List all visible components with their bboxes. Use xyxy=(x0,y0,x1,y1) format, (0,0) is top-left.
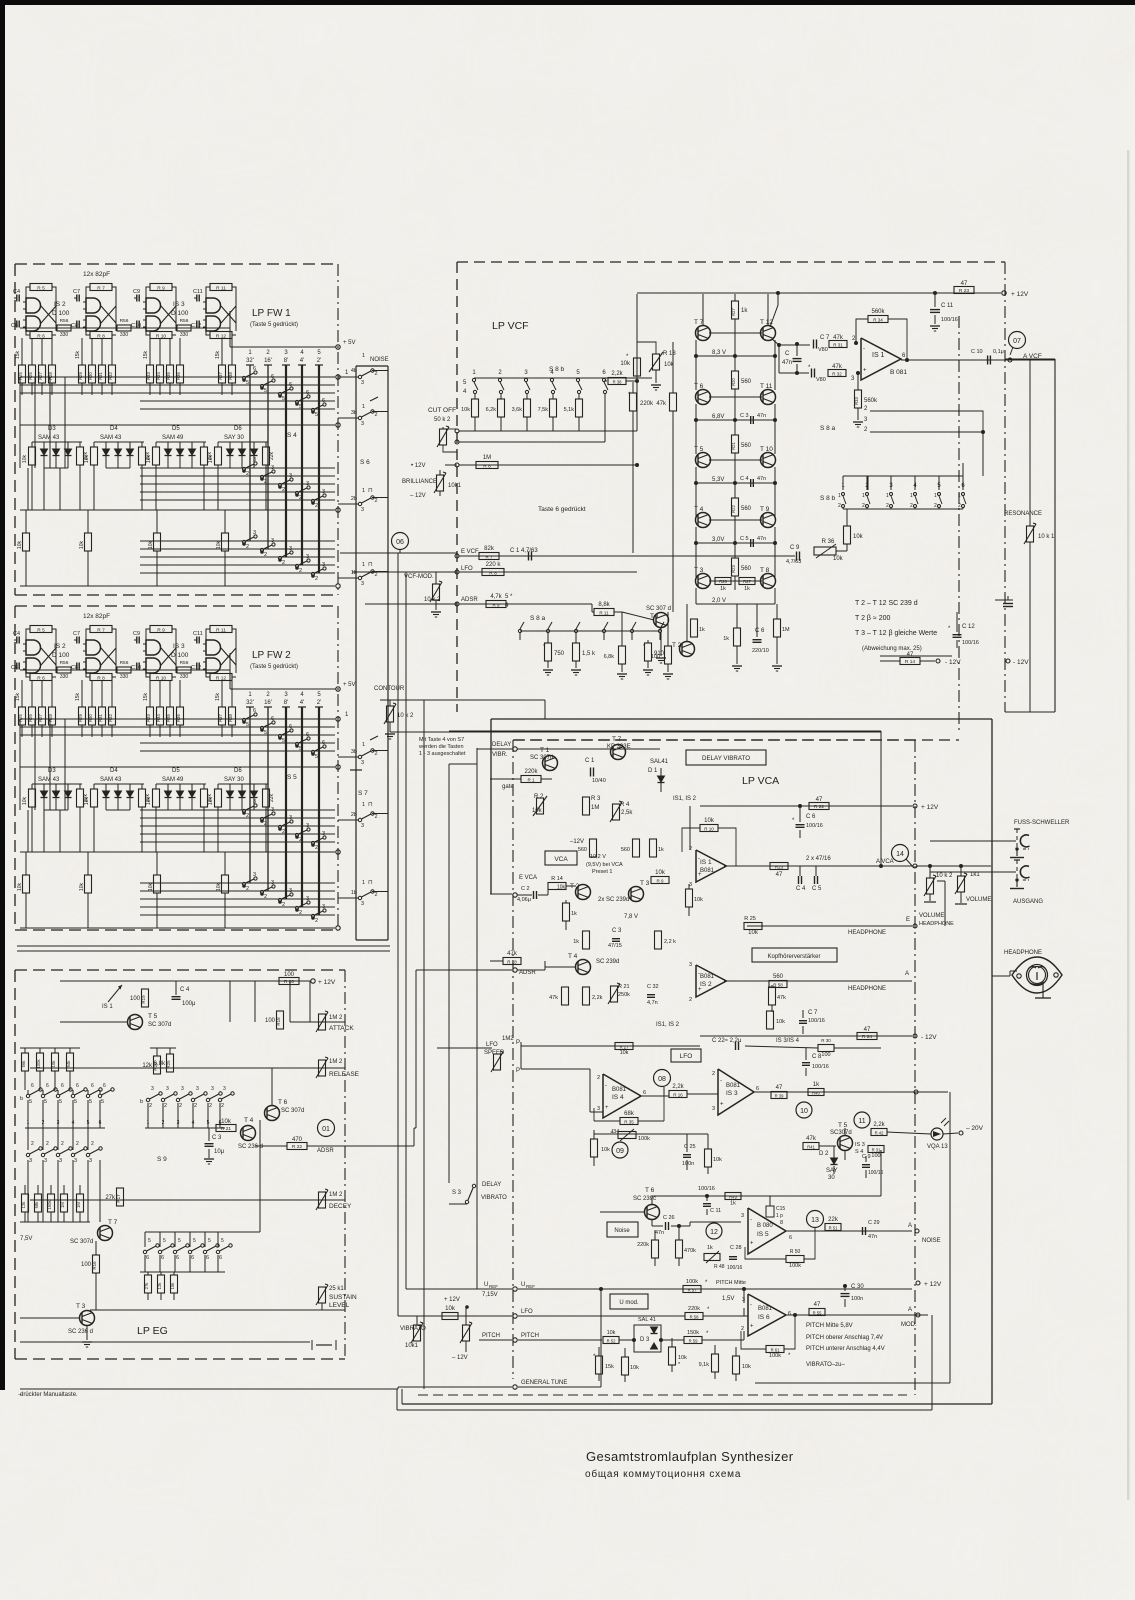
svg-text:D 100: D 100 xyxy=(52,652,70,659)
svg-text:R26: R26 xyxy=(719,579,727,584)
svg-text:6: 6 xyxy=(289,382,292,388)
transistor T1 SC307d xyxy=(654,613,669,628)
wire bus column 3 xyxy=(282,364,290,366)
wire volume wiper to E line xyxy=(937,880,945,882)
svg-text:6: 6 xyxy=(61,1083,64,1089)
wire diode group risers D4 xyxy=(93,442,95,447)
svg-text:0,1μ: 0,1μ xyxy=(993,349,1004,355)
switch S8a-2 xyxy=(546,629,549,632)
dashed top border VCA xyxy=(513,739,915,741)
resistor below switch 2 xyxy=(498,399,505,417)
svg-text:560: 560 xyxy=(741,506,752,512)
resistor 10k below op xyxy=(686,889,693,907)
resistor R10 10k feedback xyxy=(700,825,718,832)
svg-text:S 3: S 3 xyxy=(452,1190,462,1196)
svg-text:IS1, IS 2: IS1, IS 2 xyxy=(673,796,697,802)
svg-text:10k: 10k xyxy=(678,1355,687,1361)
wire output A VCA xyxy=(724,865,912,867)
svg-text:3: 3 xyxy=(361,901,364,907)
svg-text:+ 5V: + 5V xyxy=(343,682,356,688)
svg-text:IS 1: IS 1 xyxy=(102,1004,113,1010)
wire bus collector middle xyxy=(20,851,335,853)
svg-text:3: 3 xyxy=(306,554,309,560)
svg-text:16': 16' xyxy=(264,358,272,364)
svg-text:560k: 560k xyxy=(871,309,885,315)
svg-text:R 6: R 6 xyxy=(37,333,45,339)
switch S8a-1 xyxy=(518,629,521,632)
resistor 47k below IS2 xyxy=(769,987,776,1005)
svg-text:- 12V: - 12V xyxy=(945,659,961,666)
svg-text:HEADPHONE: HEADPHONE xyxy=(848,986,886,992)
svg-text:R34: R34 xyxy=(156,713,161,721)
svg-text:1M: 1M xyxy=(60,1202,65,1208)
svg-text:3b: 3b xyxy=(351,410,357,416)
svg-text:47k: 47k xyxy=(832,364,843,370)
resistor R50 100k xyxy=(786,1256,804,1263)
svg-text:T 6: T 6 xyxy=(645,1187,655,1194)
ground far right xyxy=(995,599,1013,601)
resistor R26 1k xyxy=(715,578,731,585)
switch S8a-6 xyxy=(658,629,661,632)
svg-text:47: 47 xyxy=(814,1302,821,1308)
svg-text:LFO: LFO xyxy=(680,1053,693,1060)
svg-text:330: 330 xyxy=(120,674,129,680)
svg-text:1k1: 1k1 xyxy=(970,872,980,878)
svg-text:T 5: T 5 xyxy=(694,446,704,453)
svg-text:10,2 V: 10,2 V xyxy=(590,854,606,860)
svg-text:14: 14 xyxy=(896,851,904,858)
svg-text:3: 3 xyxy=(322,831,325,837)
svg-text:SC 236 d: SC 236 d xyxy=(238,1144,263,1150)
svg-text:SC 307 d: SC 307 d xyxy=(646,606,671,612)
svg-text:1k: 1k xyxy=(741,308,748,314)
svg-text:R16: R16 xyxy=(92,1261,97,1270)
resistor 1k c xyxy=(650,839,657,857)
svg-text:R56: R56 xyxy=(60,660,69,666)
svg-text:C 7: C 7 xyxy=(808,1010,818,1016)
svg-text:R 9: R 9 xyxy=(656,879,664,884)
svg-text:6: 6 xyxy=(306,732,309,738)
svg-text:47n: 47n xyxy=(757,536,766,542)
svg-text:R26: R26 xyxy=(28,713,33,721)
resistor 560 a xyxy=(590,839,597,857)
svg-text:R 1: R 1 xyxy=(527,778,535,783)
transistor T2 xyxy=(680,642,695,657)
svg-text:100/16: 100/16 xyxy=(941,317,958,323)
resistor R7 82k xyxy=(479,553,499,560)
LP VCA outer box left partial xyxy=(490,719,492,894)
svg-text:werden die Tasten: werden die Tasten xyxy=(418,744,464,750)
transistor T 12 xyxy=(761,326,776,341)
svg-text:- 12V: - 12V xyxy=(921,1034,937,1041)
wire bus collector upper xyxy=(20,766,335,768)
capacitor C7 V80 xyxy=(813,340,815,349)
wire output A VCF xyxy=(901,359,1055,361)
wire bus column 4 xyxy=(298,706,306,708)
potentiometer RESONANCE 10k1 xyxy=(1027,526,1034,542)
svg-text:R27: R27 xyxy=(731,307,736,315)
capacitor C8 V80 xyxy=(811,369,813,378)
wire vertical bundle to bottom xyxy=(397,553,399,1316)
node 12 circle xyxy=(706,1223,722,1239)
svg-text:25 k1: 25 k1 xyxy=(329,1286,344,1292)
switch staircase xyxy=(295,564,298,567)
wire diode group risers D6 xyxy=(217,442,219,447)
svg-text:4b: 4b xyxy=(351,368,357,374)
resistor R30 1M xyxy=(774,619,781,637)
svg-text:2: 2 xyxy=(179,1103,182,1109)
svg-text:SC 307d: SC 307d xyxy=(530,755,553,761)
svg-text:2: 2 xyxy=(838,503,841,509)
svg-text:2: 2 xyxy=(910,503,913,509)
DELAY VIBRATO box xyxy=(686,750,766,765)
svg-text:2,0 V: 2,0 V xyxy=(712,598,726,604)
svg-text:27k: 27k xyxy=(144,1282,149,1290)
svg-text:3b: 3b xyxy=(351,749,357,755)
svg-text:D4: D4 xyxy=(110,768,118,774)
resistor R22 47 VCA xyxy=(809,803,829,810)
wire T12 emitter junction xyxy=(772,339,779,345)
svg-text:10k: 10k xyxy=(532,808,543,814)
svg-text:5: 5 xyxy=(282,738,285,744)
svg-text:1,5V: 1,5V xyxy=(722,1296,734,1302)
flip-flop cell R 5 xyxy=(30,284,52,291)
svg-text:250k: 250k xyxy=(618,992,630,998)
svg-text:10k: 10k xyxy=(216,883,222,892)
resistor R32 47k xyxy=(828,370,846,377)
wire stub left of column xyxy=(338,376,358,378)
svg-text:07: 07 xyxy=(1013,338,1021,345)
node 11 circle xyxy=(854,1112,870,1128)
svg-text:IS 1: IS 1 xyxy=(872,352,885,359)
svg-text:S 7: S 7 xyxy=(358,790,368,797)
svg-text:DELAY VIBRATO: DELAY VIBRATO xyxy=(702,755,750,762)
wire bus collector lower xyxy=(20,927,335,929)
transistor T 7 xyxy=(696,326,711,341)
svg-text:R 12: R 12 xyxy=(216,675,226,681)
svg-text:+ 12V: + 12V xyxy=(924,1281,942,1288)
svg-text:+ 12V: + 12V xyxy=(1011,291,1029,298)
svg-text:15k: 15k xyxy=(75,350,81,359)
switch staircase xyxy=(260,890,263,893)
svg-text:5: 5 xyxy=(29,1099,32,1105)
svg-text:1: 1 xyxy=(862,493,865,499)
svg-text:2: 2 xyxy=(221,1103,224,1109)
transistor T4 SC236d xyxy=(241,1126,256,1141)
svg-text:54k: 54k xyxy=(66,1060,71,1068)
svg-text:SC 307d: SC 307d xyxy=(70,1239,93,1245)
svg-text:47k: 47k xyxy=(507,951,518,957)
svg-text:4,7/63: 4,7/63 xyxy=(786,559,801,565)
svg-text:R 48: R 48 xyxy=(714,1264,725,1270)
wire bus column 1 xyxy=(246,364,254,366)
svg-text:IS 2: IS 2 xyxy=(54,301,66,308)
svg-text:SC 239c: SC 239c xyxy=(633,1196,656,1202)
pot R4 2.5k xyxy=(613,804,620,820)
resistor 100 T5 xyxy=(868,1146,884,1153)
svg-text:C 2: C 2 xyxy=(521,886,530,892)
svg-text:C 3: C 3 xyxy=(612,928,622,934)
svg-text:HEADPHONE: HEADPHONE xyxy=(848,930,886,936)
svg-text:C 4: C 4 xyxy=(740,476,749,482)
svg-text:C 6: C 6 xyxy=(806,814,816,820)
svg-text:5,3V: 5,3V xyxy=(712,477,724,483)
svg-text:220k: 220k xyxy=(688,1306,700,1312)
svg-text:R 22: R 22 xyxy=(292,1144,302,1150)
+5V supply terminal xyxy=(336,687,340,691)
switch staircase xyxy=(311,841,314,844)
svg-text:IS 4: IS 4 xyxy=(612,1094,624,1101)
wire bus rows middle xyxy=(140,809,335,811)
svg-text:R31: R31 xyxy=(98,713,103,721)
resistor R27 10k VCA xyxy=(615,1043,633,1050)
svg-text:SAM 43: SAM 43 xyxy=(38,777,60,783)
svg-text:2': 2' xyxy=(317,358,321,364)
svg-text:C 28: C 28 xyxy=(730,1245,742,1251)
svg-text:+: + xyxy=(605,1105,609,1111)
svg-text:15k: 15k xyxy=(15,350,21,359)
voltage 2,0V xyxy=(695,588,697,604)
svg-text:R 21: R 21 xyxy=(221,1126,231,1132)
svg-text:+: + xyxy=(750,1324,754,1330)
svg-text:1: 1 xyxy=(362,353,365,359)
switch staircase xyxy=(295,833,298,836)
svg-text:IS 3: IS 3 xyxy=(855,1142,865,1148)
dash-dot right border VCA xyxy=(914,740,916,1395)
transistor T5 VCA xyxy=(838,1136,853,1151)
svg-text:REF: REF xyxy=(489,1284,498,1289)
svg-text:1M 2: 1M 2 xyxy=(329,1192,343,1198)
wire LFO pitch xyxy=(513,1314,517,1318)
wire LFO from column xyxy=(352,571,457,573)
svg-text:100μ: 100μ xyxy=(182,1001,196,1007)
capacitor C15 1p xyxy=(766,1206,774,1217)
svg-text:09: 09 xyxy=(616,1148,624,1155)
resistor R59 150k xyxy=(684,1337,702,1344)
svg-text:T 1: T 1 xyxy=(540,747,550,754)
svg-text:100: 100 xyxy=(821,1052,830,1058)
svg-text:P: P xyxy=(516,1068,520,1074)
op-amp IS6 xyxy=(748,1294,786,1336)
svg-text:330: 330 xyxy=(180,674,189,680)
svg-text:+ 12V: + 12V xyxy=(318,979,336,986)
wire S8b row to resonance xyxy=(867,476,869,490)
svg-text:T 3: T 3 xyxy=(640,880,650,887)
svg-text:R41: R41 xyxy=(807,1145,815,1150)
svg-text:CONTOUR: CONTOUR xyxy=(374,686,405,692)
svg-text:01: 01 xyxy=(322,1126,330,1133)
svg-text:1k: 1k xyxy=(720,586,726,592)
svg-text:̶drückter Manualtaste.: ̶drückter Manualtaste. xyxy=(18,1392,78,1398)
LP VCF block dashed border xyxy=(457,261,1005,263)
svg-text:1M: 1M xyxy=(76,1202,81,1208)
svg-text:3: 3 xyxy=(322,489,325,495)
svg-text:6: 6 xyxy=(253,366,256,372)
svg-text:SAM 43: SAM 43 xyxy=(100,777,122,783)
wire ladder bases row 3 xyxy=(709,519,735,521)
svg-text:2: 2 xyxy=(282,487,285,493)
svg-text:BRILLIANCE: BRILLIANCE xyxy=(402,479,437,485)
svg-text:R22: R22 xyxy=(731,504,736,512)
svg-text:C7: C7 xyxy=(73,631,80,637)
svg-text:100: 100 xyxy=(284,972,295,978)
switch staircase xyxy=(260,726,263,729)
svg-text:2: 2 xyxy=(375,892,378,898)
svg-text:B081: B081 xyxy=(700,974,715,980)
wire ladder bases row 4 xyxy=(709,580,735,582)
svg-text:47n: 47n xyxy=(868,1234,877,1240)
flip-flop cell R 7 xyxy=(90,284,112,291)
capacitor C8 xyxy=(76,663,78,670)
svg-text:1M 2: 1M 2 xyxy=(329,1059,343,1065)
svg-text:10 k 1: 10 k 1 xyxy=(1038,534,1055,540)
svg-text:5: 5 xyxy=(246,722,249,728)
svg-text:3: 3 xyxy=(253,799,256,805)
svg-text:C4: C4 xyxy=(13,631,20,637)
svg-text:3: 3 xyxy=(59,1158,62,1164)
svg-text:6: 6 xyxy=(271,716,274,722)
resistor R14 47 xyxy=(900,658,920,665)
node 09 circle xyxy=(612,1142,628,1158)
svg-text:100/16: 100/16 xyxy=(698,1186,715,1192)
resistor in diode group D3 xyxy=(29,447,36,465)
svg-text:3: 3 xyxy=(306,481,309,487)
svg-text:3: 3 xyxy=(741,1213,744,1219)
wire ADSR 01 to VCA xyxy=(335,1145,414,1147)
dash-dot inner border VCF right xyxy=(958,316,960,733)
svg-text:T 2: T 2 xyxy=(672,642,682,649)
resistor cluster EG left xyxy=(22,1053,29,1071)
svg-text:6: 6 xyxy=(289,724,292,730)
svg-text:R21: R21 xyxy=(731,441,736,449)
svg-text:2: 2 xyxy=(689,997,692,1003)
svg-text:2: 2 xyxy=(712,1071,715,1077)
svg-text:2: 2 xyxy=(375,814,378,820)
capacitor resonance xyxy=(1003,603,1013,605)
op-amp IS1 B081 xyxy=(861,338,901,380)
svg-text:SC 239d: SC 239d xyxy=(596,959,619,965)
svg-text:56k: 56k xyxy=(21,1060,26,1068)
svg-text:10 k 2: 10 k 2 xyxy=(936,873,953,879)
wire ladder bases row 0 xyxy=(709,332,735,334)
svg-text:gate: gate xyxy=(502,784,514,790)
resistor R34 560k feedback xyxy=(868,316,888,323)
svg-text:E: E xyxy=(906,917,910,923)
switch S8a-5 xyxy=(630,629,633,632)
switch staircase xyxy=(278,483,281,486)
svg-text:2: 2 xyxy=(741,1326,744,1332)
svg-text:R 34: R 34 xyxy=(873,318,883,323)
svg-text:VIBRATO: VIBRATO xyxy=(481,1195,507,1201)
wire LFO line xyxy=(455,570,459,574)
wire E VCF xyxy=(340,552,457,554)
svg-text:R 7: R 7 xyxy=(97,627,105,633)
svg-text:3: 3 xyxy=(271,538,274,544)
svg-text:330: 330 xyxy=(180,332,189,338)
resistor R58 220k xyxy=(685,1313,703,1320)
resistor R24 47 xyxy=(857,1033,877,1040)
svg-text:10k1: 10k1 xyxy=(405,1343,419,1349)
node 13 circle xyxy=(807,1211,824,1228)
svg-text:50 k 2: 50 k 2 xyxy=(434,417,451,423)
svg-text:330: 330 xyxy=(120,332,129,338)
resistor R39 47 xyxy=(771,1092,787,1099)
wire ladder bases row 1 xyxy=(709,396,735,398)
svg-text:R36: R36 xyxy=(176,713,181,721)
svg-text:3: 3 xyxy=(196,1086,199,1092)
switch column S6/S7 box xyxy=(355,366,357,940)
svg-text:2: 2 xyxy=(299,568,302,574)
resistor R29 1k xyxy=(734,628,741,646)
+5V supply terminal xyxy=(336,345,340,349)
LP VCA outer box right xyxy=(991,719,993,1404)
svg-text:10k: 10k xyxy=(833,556,844,562)
wire E VCF line xyxy=(455,554,459,558)
wire bus rows middle xyxy=(140,467,335,469)
svg-text:10k: 10k xyxy=(713,1157,722,1163)
svg-text:2: 2 xyxy=(91,1141,94,1147)
switch staircase xyxy=(278,898,281,901)
svg-text:6,2k: 6,2k xyxy=(486,407,497,413)
svg-text:47n: 47n xyxy=(757,413,766,419)
svg-text:1: 1 xyxy=(958,493,961,499)
resistor R18 47k xyxy=(503,958,521,965)
capacitor C8 xyxy=(76,321,78,328)
svg-text:330: 330 xyxy=(60,674,69,680)
svg-text:6: 6 xyxy=(31,1083,34,1089)
svg-text:R30: R30 xyxy=(88,713,93,721)
svg-text:R29: R29 xyxy=(78,713,83,721)
svg-text:общая коммутоционня схема: общая коммутоционня схема xyxy=(585,1468,741,1480)
svg-text:100n: 100n xyxy=(682,1161,694,1167)
svg-text:D 3: D 3 xyxy=(640,1337,650,1343)
resistor below switch 3 xyxy=(524,399,531,417)
svg-text:5: 5 xyxy=(282,396,285,402)
svg-text:47: 47 xyxy=(907,652,914,658)
svg-text:Taste 6 gedrückt: Taste 6 gedrückt xyxy=(538,506,586,513)
headphone connector xyxy=(992,975,1010,977)
wire ladder row 1 xyxy=(695,404,697,420)
wire ladder row 0 xyxy=(695,340,697,356)
svg-text:1k: 1k xyxy=(813,1082,820,1088)
svg-text:R 31: R 31 xyxy=(833,343,843,348)
wire bus collector upper xyxy=(20,424,335,426)
svg-text:150k: 150k xyxy=(47,1200,52,1210)
wire bus collector lower xyxy=(20,585,335,587)
svg-text:2: 2 xyxy=(246,886,249,892)
svg-text:R56: R56 xyxy=(120,660,129,666)
svg-text:C 32: C 32 xyxy=(647,984,659,990)
svg-text:C 1: C 1 xyxy=(585,758,595,764)
capacitor C5 47n xyxy=(750,539,752,547)
svg-text:10k: 10k xyxy=(208,797,214,806)
wire +12V top xyxy=(905,292,1001,294)
potentiometer R18 10k xyxy=(653,354,660,370)
svg-text:REF: REF xyxy=(526,1284,535,1289)
svg-text:R 14: R 14 xyxy=(905,659,915,665)
potentiometer CONTOUR 10k2 xyxy=(387,706,394,722)
svg-text:LFO: LFO xyxy=(486,1042,498,1048)
svg-text:PITCH: PITCH xyxy=(521,1333,539,1339)
transistor T3 VCA xyxy=(629,887,644,902)
svg-text:V80: V80 xyxy=(818,347,828,353)
svg-text:SAM 43: SAM 43 xyxy=(100,435,122,441)
potentiometer DECEY 1M2 xyxy=(319,1192,326,1208)
svg-text:C 11: C 11 xyxy=(710,1208,721,1214)
svg-text:PITCH Mitte 5,8V: PITCH Mitte 5,8V xyxy=(806,1323,853,1329)
svg-text:10: 10 xyxy=(800,1108,808,1115)
svg-text:560: 560 xyxy=(621,847,630,853)
